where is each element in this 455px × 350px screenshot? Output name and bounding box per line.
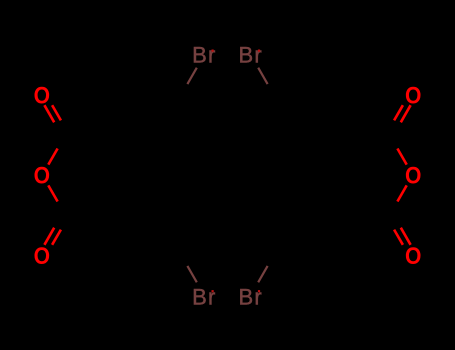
svg-text:Br: Br [192,284,216,309]
svg-text:O: O [405,82,421,109]
svg-text:O: O [34,162,50,189]
svg-text:O: O [405,162,421,189]
svg-text:Br: Br [238,284,262,309]
svg-text:Br: Br [238,43,262,68]
svg-text:O: O [34,243,50,270]
svg-text:O: O [405,243,421,270]
svg-text:Br: Br [192,43,216,68]
svg-text:O: O [34,82,50,109]
